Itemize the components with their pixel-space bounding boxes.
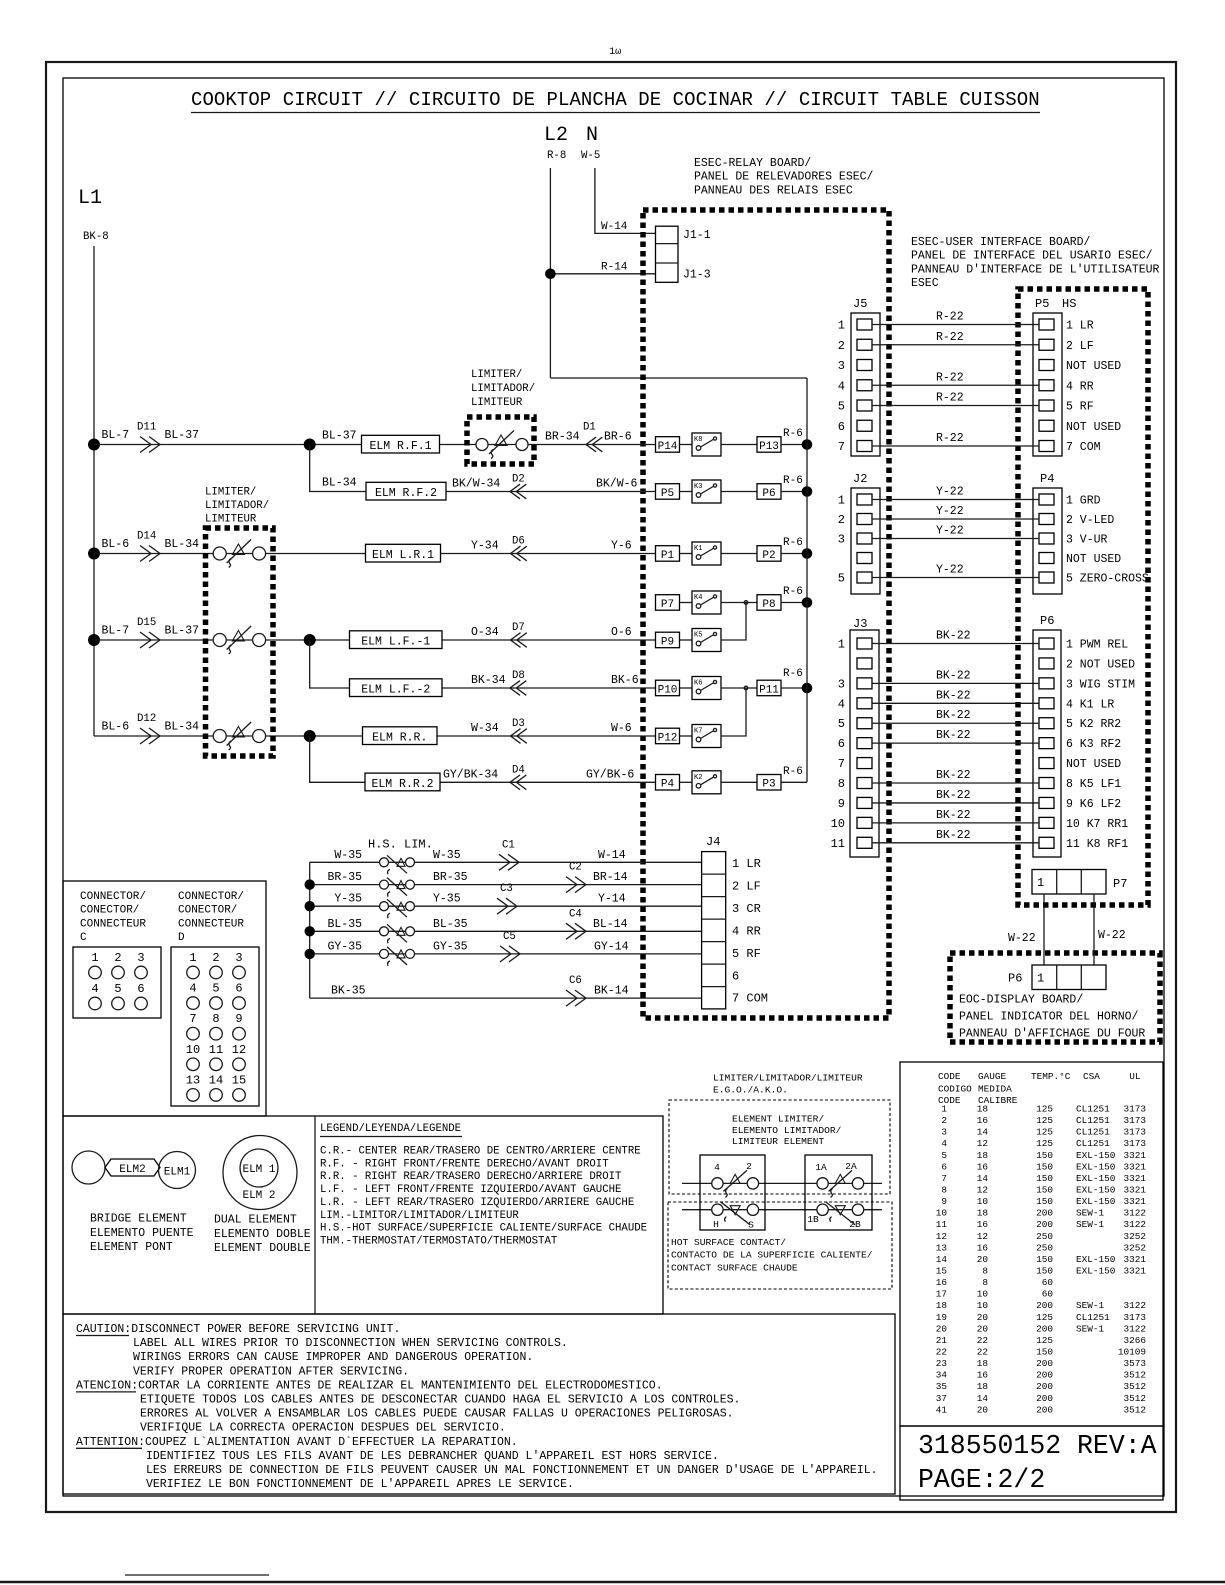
svg-text:150: 150 bbox=[1036, 1265, 1053, 1276]
wire BK-22 J3.1-P6.1 bbox=[872, 643, 1039, 645]
svg-text:W-5: W-5 bbox=[581, 150, 600, 162]
svg-text:VERIFIEZ LE BON FONCTIONNEMENT: VERIFIEZ LE BON FONCTIONNEMENT DE L'APPA… bbox=[146, 1478, 574, 1491]
svg-text:8: 8 bbox=[212, 1012, 219, 1026]
svg-text:LABEL ALL WIRES PRIOR TO DISCO: LABEL ALL WIRES PRIOR TO DISCONNECTION W… bbox=[133, 1337, 568, 1350]
svg-text:LIMITADOR/: LIMITADOR/ bbox=[471, 383, 535, 395]
connector P6 pin 4 bbox=[1039, 698, 1054, 709]
svg-text:ELEMENT PONT: ELEMENT PONT bbox=[90, 1241, 173, 1254]
svg-text:PANEL INDICATOR DEL HORNO/: PANEL INDICATOR DEL HORNO/ bbox=[959, 1011, 1139, 1024]
svg-text:Y-34: Y-34 bbox=[471, 540, 499, 553]
connector D pin 7 bbox=[187, 1027, 200, 1040]
svg-text:3512: 3512 bbox=[1123, 1381, 1146, 1392]
svg-text:CONNECTOR/: CONNECTOR/ bbox=[178, 891, 244, 903]
wire K8-P13 bbox=[721, 444, 757, 446]
svg-text:6: 6 bbox=[838, 737, 845, 751]
svg-text:Y-35: Y-35 bbox=[334, 893, 362, 906]
svg-text:J1-1: J1-1 bbox=[683, 229, 711, 242]
connector P4 pin 3 bbox=[1039, 533, 1054, 544]
svg-text:10: 10 bbox=[186, 1043, 200, 1057]
connector D pin 3 bbox=[233, 966, 246, 979]
connector C pin 4 bbox=[89, 997, 102, 1010]
svg-text:150: 150 bbox=[1036, 1184, 1053, 1195]
relay K4 bbox=[692, 591, 721, 614]
svg-text:ELEMENTO PUENTE: ELEMENTO PUENTE bbox=[90, 1227, 194, 1240]
svg-text:BK-34: BK-34 bbox=[471, 674, 506, 687]
connector D pin 4 bbox=[187, 997, 200, 1010]
connector P2 bbox=[757, 546, 781, 562]
svg-text:3321: 3321 bbox=[1123, 1173, 1146, 1184]
svg-text:EXL-150: EXL-150 bbox=[1076, 1161, 1116, 1172]
svg-text:ESEC-RELAY BOARD/: ESEC-RELAY BOARD/ bbox=[694, 157, 811, 170]
svg-text:P7: P7 bbox=[1113, 877, 1127, 891]
svg-text:R-6: R-6 bbox=[783, 428, 803, 440]
svg-text:CL1251: CL1251 bbox=[1076, 1104, 1110, 1115]
svg-text:3173: 3173 bbox=[1123, 1127, 1146, 1138]
svg-text:K7: K7 bbox=[694, 728, 702, 736]
svg-text:CONTACTO DE LA SUPERFICIE CALI: CONTACTO DE LA SUPERFICIE CALIENTE/ bbox=[671, 1250, 873, 1261]
svg-text:R-8: R-8 bbox=[547, 150, 566, 162]
connector J5 pin 4 bbox=[857, 380, 872, 391]
connector C pin 6 bbox=[135, 997, 148, 1010]
svg-text:C4: C4 bbox=[569, 908, 582, 920]
svg-text:16: 16 bbox=[936, 1277, 948, 1288]
inline connector C5 bbox=[500, 946, 520, 962]
svg-text:PANNEAU DES RELAIS ESEC: PANNEAU DES RELAIS ESEC bbox=[694, 184, 853, 197]
svg-text:4: 4 bbox=[838, 697, 845, 711]
svg-text:LIMITER/: LIMITER/ bbox=[471, 369, 522, 381]
node bus/P8 bbox=[802, 597, 813, 608]
svg-text:LIMITER/LIMITADOR/LIMITEUR: LIMITER/LIMITADOR/LIMITEUR bbox=[713, 1073, 863, 1084]
connector D pin 8 bbox=[210, 1027, 223, 1040]
wire BK-22 J3.6-P6.6 bbox=[872, 742, 1039, 744]
wire H.S. feed vertical bbox=[309, 862, 311, 998]
svg-text:D: D bbox=[178, 932, 185, 944]
svg-text:20: 20 bbox=[977, 1323, 989, 1334]
wire R-22 J5.4-P5.4 bbox=[872, 384, 1039, 386]
svg-text:1 PWM REL: 1 PWM REL bbox=[1066, 639, 1128, 652]
wire R-22 J5.2-P5.2 bbox=[872, 344, 1039, 346]
connector P6 pin 8 bbox=[1039, 778, 1054, 789]
svg-text:P4: P4 bbox=[661, 779, 675, 791]
svg-text:ERRORES AL VOLVER A ENSAMBLAR: ERRORES AL VOLVER A ENSAMBLAR LOS CABLES… bbox=[140, 1408, 734, 1421]
svg-text:1: 1 bbox=[189, 951, 196, 965]
svg-text:10: 10 bbox=[936, 1208, 948, 1219]
svg-text:1B: 1B bbox=[807, 1214, 819, 1225]
svg-text:D7: D7 bbox=[512, 622, 525, 634]
svg-text:3573: 3573 bbox=[1123, 1358, 1146, 1369]
svg-text:2: 2 bbox=[114, 951, 121, 965]
svg-text:16: 16 bbox=[977, 1219, 989, 1230]
svg-text:6: 6 bbox=[838, 420, 845, 434]
connector P4 pin 2 bbox=[1039, 514, 1054, 525]
svg-text:K2: K2 bbox=[694, 774, 702, 782]
wire BK-22 J3.11-P6.11 bbox=[872, 842, 1039, 844]
svg-text:NOT USED: NOT USED bbox=[1066, 360, 1121, 373]
svg-text:C1: C1 bbox=[502, 839, 515, 851]
svg-text:BL-14: BL-14 bbox=[593, 918, 628, 931]
connector P7 UI body bbox=[1032, 870, 1106, 895]
svg-text:4: 4 bbox=[714, 1162, 720, 1173]
svg-text:1: 1 bbox=[91, 951, 98, 965]
svg-text:CONECTOR/: CONECTOR/ bbox=[80, 905, 139, 917]
connector P6 pin 1 bbox=[1039, 638, 1054, 649]
svg-text:ELM R.R.2: ELM R.R.2 bbox=[371, 778, 433, 791]
connector P11 bbox=[757, 680, 781, 696]
wire row W-35 bbox=[310, 861, 702, 863]
svg-text:150: 150 bbox=[1036, 1150, 1053, 1161]
wire L1 vertical feed bbox=[93, 246, 95, 736]
connector P5 bbox=[656, 484, 680, 500]
svg-text:ELEMENTO LIMITADOR/: ELEMENTO LIMITADOR/ bbox=[732, 1125, 842, 1136]
svg-text:K4: K4 bbox=[694, 594, 702, 602]
svg-text:3321: 3321 bbox=[1123, 1184, 1146, 1195]
svg-text:3 V-UR: 3 V-UR bbox=[1066, 534, 1108, 547]
svg-text:CONNECTOR/: CONNECTOR/ bbox=[80, 891, 146, 903]
connector C pin 1 bbox=[89, 966, 102, 979]
svg-text:LIMITEUR: LIMITEUR bbox=[471, 397, 523, 409]
svg-text:3 CR: 3 CR bbox=[732, 902, 761, 916]
svg-text:ELEMENT LIMITER/: ELEMENT LIMITER/ bbox=[732, 1114, 824, 1125]
svg-text:NOT USED: NOT USED bbox=[1066, 758, 1121, 771]
connector J3 pin 10 bbox=[857, 817, 872, 828]
svg-text:3: 3 bbox=[838, 359, 845, 373]
E.G.O. left box bbox=[700, 1155, 765, 1230]
svg-text:2: 2 bbox=[212, 951, 219, 965]
node junction row RF1 branch bbox=[304, 439, 316, 451]
svg-text:BL-37: BL-37 bbox=[322, 430, 357, 443]
wire K7 up to P11 row bbox=[721, 688, 746, 736]
E.G.O. switch 4-2 bbox=[712, 1178, 723, 1189]
svg-text:10: 10 bbox=[977, 1300, 989, 1311]
connector P3 bbox=[757, 775, 781, 791]
node junction L1/row RF1 bbox=[88, 439, 100, 451]
svg-text:200: 200 bbox=[1036, 1323, 1053, 1334]
wire Y-22 J2.1-P4.1 bbox=[872, 499, 1039, 501]
element ELM L.F.-2 bbox=[350, 679, 443, 697]
node junction L1/row LF1 bbox=[88, 634, 100, 646]
svg-text:L1: L1 bbox=[78, 187, 102, 210]
connector P5 pin 3 bbox=[1039, 360, 1054, 371]
svg-text:Y-22: Y-22 bbox=[936, 525, 964, 538]
svg-text:UL: UL bbox=[1129, 1071, 1141, 1082]
svg-text:BL-6: BL-6 bbox=[102, 538, 130, 551]
relay K3 bbox=[692, 480, 721, 503]
wire row Y-35 bbox=[310, 905, 702, 907]
svg-text:5: 5 bbox=[212, 982, 219, 996]
node bus/P13 bbox=[802, 439, 813, 450]
element ELM R.R.2 bbox=[365, 773, 440, 791]
connector C pin 2 bbox=[112, 966, 125, 979]
svg-text:3512: 3512 bbox=[1123, 1404, 1146, 1415]
inline connector C6 bbox=[566, 990, 586, 1006]
svg-text:4 RR: 4 RR bbox=[1066, 380, 1094, 393]
svg-text:ATENCION:CORTAR LA CORRIENTE A: ATENCION:CORTAR LA CORRIENTE ANTES DE RE… bbox=[76, 1379, 663, 1392]
svg-text:22: 22 bbox=[977, 1335, 988, 1346]
wire P6-bus bbox=[781, 491, 807, 493]
connector D pin 15 bbox=[233, 1089, 246, 1102]
svg-text:BL-34: BL-34 bbox=[165, 538, 200, 551]
svg-text:21: 21 bbox=[936, 1335, 948, 1346]
svg-text:BK/W-34: BK/W-34 bbox=[452, 478, 500, 491]
svg-text:NOT USED: NOT USED bbox=[1066, 421, 1121, 434]
svg-text:200: 200 bbox=[1036, 1300, 1053, 1311]
svg-text:200: 200 bbox=[1036, 1370, 1053, 1381]
wire K6-P11 bbox=[721, 687, 757, 689]
relay K2 bbox=[692, 771, 721, 794]
svg-text:W-34: W-34 bbox=[471, 722, 499, 735]
svg-text:D14: D14 bbox=[137, 531, 156, 543]
svg-text:1ω: 1ω bbox=[609, 46, 621, 58]
inline connector D11 bbox=[140, 437, 160, 453]
svg-text:37: 37 bbox=[936, 1393, 947, 1404]
connector P6 pin 5 bbox=[1039, 718, 1054, 729]
svg-text:ELM L.F.-2: ELM L.F.-2 bbox=[361, 684, 430, 697]
svg-text:ELM2: ELM2 bbox=[119, 1164, 145, 1176]
relay K5 bbox=[692, 629, 721, 652]
connector D pin 11 bbox=[210, 1058, 223, 1071]
svg-text:BRIDGE ELEMENT: BRIDGE ELEMENT bbox=[90, 1213, 187, 1226]
wire P14-K8 bbox=[680, 444, 693, 446]
wire row BK-35 bbox=[310, 997, 702, 999]
svg-text:BK-8: BK-8 bbox=[83, 231, 109, 243]
connector P13 bbox=[757, 437, 781, 453]
bridge element symbol bbox=[72, 1151, 105, 1184]
svg-text:PAGE:2/2: PAGE:2/2 bbox=[918, 1465, 1045, 1495]
svg-text:CSA: CSA bbox=[1083, 1071, 1100, 1082]
svg-text:R-14: R-14 bbox=[601, 262, 628, 274]
svg-text:ELM L.R.1: ELM L.R.1 bbox=[372, 549, 434, 562]
connector P5 pin 7 bbox=[1039, 441, 1054, 452]
svg-text:L.F. - LEFT FRONT/FRENTE IZQUI: L.F. - LEFT FRONT/FRENTE IZQUIERDO/AVANT… bbox=[320, 1184, 621, 1196]
svg-text:BK-6: BK-6 bbox=[611, 674, 639, 687]
svg-text:200: 200 bbox=[1036, 1219, 1053, 1230]
svg-text:9: 9 bbox=[838, 797, 845, 811]
svg-text:6: 6 bbox=[732, 969, 739, 983]
connector C body bbox=[73, 947, 161, 1018]
svg-text:LES ERREURS DE CONNECTION DE F: LES ERREURS DE CONNECTION DE FILS PEUVEN… bbox=[146, 1464, 878, 1477]
svg-text:SEW-1: SEW-1 bbox=[1076, 1323, 1105, 1334]
svg-text:7: 7 bbox=[941, 1173, 947, 1184]
board EOC-DISPLAY outline bbox=[950, 953, 1160, 1042]
dual element symbol bbox=[223, 1136, 297, 1210]
svg-text:H: H bbox=[713, 1219, 719, 1230]
wire P7-K4 bbox=[680, 602, 693, 604]
connector C/D panel box bbox=[63, 881, 266, 1116]
inline connector D2 bbox=[510, 484, 526, 499]
connector J5 body bbox=[851, 313, 880, 456]
svg-text:3252: 3252 bbox=[1123, 1242, 1146, 1253]
svg-text:1 GRD: 1 GRD bbox=[1066, 495, 1101, 508]
svg-text:EOC-DISPLAY BOARD/: EOC-DISPLAY BOARD/ bbox=[959, 994, 1083, 1007]
svg-text:VERIFY PROPER OPERATION AFTER: VERIFY PROPER OPERATION AFTER SERVICING. bbox=[133, 1365, 409, 1378]
node bus/P2 bbox=[802, 548, 813, 559]
svg-text:3122: 3122 bbox=[1123, 1323, 1146, 1334]
svg-text:BR-35: BR-35 bbox=[433, 871, 468, 884]
svg-text:R-6: R-6 bbox=[783, 766, 803, 778]
svg-text:N: N bbox=[586, 124, 598, 147]
svg-text:R-22: R-22 bbox=[936, 311, 964, 324]
svg-text:P5: P5 bbox=[1035, 297, 1049, 311]
svg-text:ATTENTION:COUPEZ L`ALIMENTATIO: ATTENTION:COUPEZ L`ALIMENTATION AVANT D`… bbox=[76, 1436, 518, 1449]
svg-text:5 RF: 5 RF bbox=[1066, 401, 1094, 414]
wire BK-22 J3.10-P6.10 bbox=[872, 822, 1039, 824]
svg-text:R-6: R-6 bbox=[783, 586, 803, 598]
svg-text:BL-6: BL-6 bbox=[102, 721, 130, 734]
svg-text:PANEL DE RELEVADORES ESEC/: PANEL DE RELEVADORES ESEC/ bbox=[694, 171, 874, 184]
svg-text:14: 14 bbox=[977, 1127, 989, 1138]
node junction L2/R-14 bbox=[545, 269, 556, 280]
connector P5 pin 4 bbox=[1039, 380, 1054, 391]
svg-text:P11: P11 bbox=[759, 684, 779, 696]
H.S. limiter switch BR bbox=[380, 880, 389, 889]
wire BK-22 J3.9-P6.9 bbox=[872, 802, 1039, 804]
svg-text:12: 12 bbox=[977, 1138, 988, 1149]
connector P5 pin 6 bbox=[1039, 420, 1054, 431]
wire row ELM R.R. bbox=[94, 735, 656, 737]
element ELM R.F.2 bbox=[366, 482, 446, 500]
connector J5 pin 3 bbox=[857, 360, 872, 371]
svg-text:3321: 3321 bbox=[1123, 1265, 1146, 1276]
connector J2 pin 2 bbox=[857, 514, 872, 525]
wire K4-P8 bbox=[721, 602, 757, 604]
svg-text:BL-35: BL-35 bbox=[433, 918, 468, 931]
svg-text:150: 150 bbox=[1036, 1346, 1053, 1357]
connector D pin 14 bbox=[210, 1089, 223, 1102]
svg-text:60: 60 bbox=[1042, 1277, 1054, 1288]
svg-text:Y-22: Y-22 bbox=[936, 564, 964, 577]
inline connector D4 bbox=[510, 775, 526, 790]
connector J3 pin 2 bbox=[857, 658, 872, 669]
svg-text:6: 6 bbox=[235, 982, 242, 996]
wire P3-bus bbox=[781, 781, 807, 783]
footer stamp box bbox=[900, 1426, 1163, 1500]
svg-text:R-6: R-6 bbox=[783, 537, 803, 549]
svg-text:250: 250 bbox=[1036, 1242, 1053, 1253]
svg-text:C2: C2 bbox=[569, 862, 582, 874]
svg-text:BR-35: BR-35 bbox=[327, 871, 362, 884]
svg-text:SEW-1: SEW-1 bbox=[1076, 1219, 1105, 1230]
connector J3 pin 4 bbox=[857, 698, 872, 709]
svg-text:125: 125 bbox=[1036, 1115, 1053, 1126]
wire K1-P2 bbox=[721, 553, 757, 555]
wire K2-P3 bbox=[721, 781, 757, 783]
svg-text:18: 18 bbox=[977, 1104, 989, 1115]
svg-text:Y-6: Y-6 bbox=[611, 540, 632, 553]
svg-text:D3: D3 bbox=[512, 718, 525, 730]
connector P4 body bbox=[1033, 488, 1062, 594]
hot surface dashed box bbox=[668, 1202, 892, 1289]
svg-text:P12: P12 bbox=[658, 732, 678, 744]
svg-text:15: 15 bbox=[232, 1073, 246, 1087]
wire R-22 J5.5-P5.5 bbox=[872, 405, 1039, 407]
wire P2-bus bbox=[781, 553, 807, 555]
svg-text:PANEL DE INTERFACE DEL USARIO: PANEL DE INTERFACE DEL USARIO ESEC/ bbox=[911, 250, 1153, 263]
limiter R.F.1 outline bbox=[467, 417, 534, 464]
svg-text:ESEC-USER INTERFACE BOARD/: ESEC-USER INTERFACE BOARD/ bbox=[911, 236, 1091, 249]
svg-text:ELEMENTO DOBLE: ELEMENTO DOBLE bbox=[214, 1228, 311, 1241]
connector D pin 12 bbox=[233, 1058, 246, 1071]
svg-text:3321: 3321 bbox=[1123, 1254, 1146, 1265]
svg-text:5 RF: 5 RF bbox=[732, 947, 761, 961]
svg-text:16: 16 bbox=[977, 1370, 989, 1381]
svg-text:E.G.O./A.K.O.: E.G.O./A.K.O. bbox=[713, 1085, 788, 1096]
wire BK-22 J3.5-P6.5 bbox=[872, 722, 1039, 724]
svg-text:C: C bbox=[80, 932, 87, 944]
wire Y-22 J2.2-P4.2 bbox=[872, 518, 1039, 520]
wire Y-22 J2.5-P4.5 bbox=[872, 577, 1039, 579]
svg-text:R-22: R-22 bbox=[936, 371, 964, 384]
svg-text:C6: C6 bbox=[569, 975, 582, 987]
connector P5-HS body bbox=[1033, 313, 1062, 456]
svg-text:BR-6: BR-6 bbox=[604, 431, 632, 444]
svg-text:L2: L2 bbox=[544, 124, 568, 147]
svg-text:CONNECTEUR: CONNECTEUR bbox=[178, 918, 244, 930]
svg-text:Y-22: Y-22 bbox=[936, 505, 964, 518]
svg-text:SEW-1: SEW-1 bbox=[1076, 1208, 1105, 1219]
svg-text:125: 125 bbox=[1036, 1335, 1053, 1346]
svg-text:D12: D12 bbox=[137, 713, 156, 725]
connector J3 pin 11 bbox=[857, 837, 872, 848]
element limiter dashed box bbox=[669, 1100, 890, 1194]
svg-text:1: 1 bbox=[1037, 972, 1044, 986]
wire gauge table box bbox=[900, 1062, 1163, 1426]
connector D pin 6 bbox=[233, 997, 246, 1010]
svg-text:ELM 2: ELM 2 bbox=[242, 1190, 275, 1202]
svg-text:W-14: W-14 bbox=[598, 849, 626, 862]
connector J3 pin 3 bbox=[857, 678, 872, 689]
connector J3 pin 1 bbox=[857, 638, 872, 649]
svg-text:R-6: R-6 bbox=[783, 668, 803, 680]
svg-text:O-6: O-6 bbox=[611, 626, 632, 639]
svg-text:7: 7 bbox=[838, 440, 845, 454]
svg-text:K3: K3 bbox=[694, 483, 702, 491]
connector P14 bbox=[656, 437, 680, 453]
svg-text:3: 3 bbox=[235, 951, 242, 965]
svg-text:5: 5 bbox=[114, 982, 121, 996]
connector J2 pin 5 bbox=[857, 572, 872, 583]
svg-text:Y-35: Y-35 bbox=[433, 893, 461, 906]
svg-text:LIMITER/: LIMITER/ bbox=[205, 487, 256, 499]
svg-text:LIMITADOR/: LIMITADOR/ bbox=[205, 500, 269, 512]
svg-text:20: 20 bbox=[977, 1312, 989, 1323]
connector J5 pin 2 bbox=[857, 339, 872, 350]
svg-text:2: 2 bbox=[838, 513, 845, 527]
caution panel box bbox=[63, 1314, 895, 1494]
svg-text:150: 150 bbox=[1036, 1196, 1053, 1207]
svg-text:ELM 1: ELM 1 bbox=[242, 1164, 275, 1176]
svg-text:12: 12 bbox=[977, 1231, 988, 1242]
svg-text:EXL-150: EXL-150 bbox=[1076, 1173, 1116, 1184]
connector D pin 10 bbox=[187, 1058, 200, 1071]
svg-text:9: 9 bbox=[235, 1012, 242, 1026]
svg-text:P14: P14 bbox=[658, 441, 678, 453]
svg-text:GY-14: GY-14 bbox=[594, 940, 629, 953]
svg-text:BK-22: BK-22 bbox=[936, 729, 971, 742]
svg-text:14: 14 bbox=[977, 1173, 989, 1184]
svg-text:BK-22: BK-22 bbox=[936, 669, 971, 682]
node K5 tap bbox=[744, 601, 748, 605]
svg-text:D8: D8 bbox=[512, 670, 525, 682]
wire branch to row ELM R.R.2 bbox=[310, 736, 656, 782]
svg-text:23: 23 bbox=[936, 1358, 948, 1369]
svg-text:34: 34 bbox=[936, 1370, 948, 1381]
svg-text:17: 17 bbox=[936, 1289, 947, 1300]
svg-text:BL-35: BL-35 bbox=[327, 918, 362, 931]
svg-text:EXL-150: EXL-150 bbox=[1076, 1265, 1116, 1276]
svg-text:16: 16 bbox=[977, 1115, 989, 1126]
connector P6 pin 6 bbox=[1039, 738, 1054, 749]
H.S. limiter switch GY bbox=[380, 949, 389, 958]
